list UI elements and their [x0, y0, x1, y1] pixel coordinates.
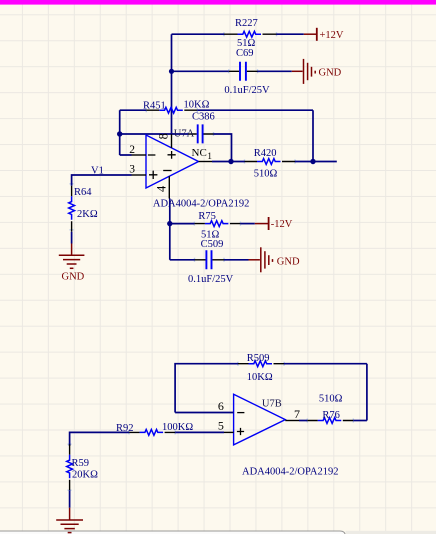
- U7B pin 5 (non-inverting input): [218, 418, 244, 435]
- svg-text:1: 1: [207, 152, 212, 162]
- svg-text:R64: R64: [74, 187, 92, 198]
- resistor R227: [224, 31, 277, 37]
- svg-text:4: 4: [154, 185, 168, 192]
- svg-text:20KΩ: 20KΩ: [72, 470, 98, 481]
- svg-text:+12V: +12V: [320, 30, 344, 41]
- svg-text:R420: R420: [254, 148, 277, 159]
- wire: pin-4 rail to C509: [170, 259, 195, 261]
- U7B pin 7 output: [285, 407, 300, 421]
- svg-text:0.1uF/25V: 0.1uF/25V: [224, 85, 270, 96]
- svg-text:510Ω: 510Ω: [319, 394, 343, 405]
- capacitor C509: [195, 250, 225, 269]
- svg-text:3: 3: [129, 164, 135, 176]
- svg-text:U7A: U7A: [174, 128, 195, 139]
- wire: output of U7A: [212, 161, 245, 163]
- svg-text:GND: GND: [277, 257, 300, 268]
- wire: pin-8 rail to C69: [172, 70, 229, 72]
- resistor R76: [307, 418, 353, 424]
- power port +12V: [304, 28, 344, 41]
- U7A pin 8 (V+): [157, 133, 176, 159]
- svg-text:R451: R451: [143, 101, 166, 112]
- U7A pin 1 output, NC pin name: [192, 147, 213, 162]
- junction node on pin-4 rail at R75 tap: [167, 221, 172, 226]
- svg-text:0.1uF/25V: 0.1uF/25V: [188, 274, 234, 285]
- op-amp U7A triangle: [146, 135, 199, 188]
- wire: feedback net R451 row, from pin-2 node up and across to output node: [120, 110, 313, 161]
- op-amp U7B triangle: [234, 394, 286, 445]
- junction node output / C386: [228, 159, 233, 164]
- svg-text:510Ω: 510Ω: [254, 169, 278, 180]
- wire: R76 to feedback right vertical: [353, 420, 367, 422]
- U7B pin 6 (inverting input): [175, 399, 244, 413]
- power ground GND below R64 (down-facing bars): [59, 244, 85, 283]
- wire: R92 input row to pin 5: [70, 432, 224, 446]
- svg-text:GND: GND: [319, 68, 342, 79]
- wire: R64 to GND: [71, 232, 73, 244]
- wire: C386 left branch: [120, 133, 188, 135]
- U7A pin 4 (V-): [154, 171, 171, 199]
- svg-text:C69: C69: [236, 48, 254, 59]
- power port -12V: [240, 217, 292, 230]
- junction node after R420 / feedback: [310, 159, 315, 164]
- wire: U7B feedback top R509 row: [175, 364, 367, 421]
- svg-text:U7B: U7B: [262, 398, 282, 409]
- power ground GND (right-facing bars) for C509: [249, 247, 300, 272]
- U7A pin 2 (inverting input): [129, 144, 155, 156]
- wire: +12V rail down to U7A pin 8: [172, 34, 304, 134]
- svg-text:5: 5: [218, 418, 224, 432]
- resistor R59: [67, 444, 73, 490]
- resistor R75: [194, 221, 240, 227]
- svg-text:ADA4004-2/OPA2192: ADA4004-2/OPA2192: [153, 199, 249, 210]
- resistor R64: [69, 186, 75, 232]
- wire: R59 to bottom GND: [69, 490, 71, 507]
- wire: C386 right branch down to output node: [214, 134, 232, 162]
- svg-text:R75: R75: [198, 211, 216, 222]
- svg-text:2KΩ: 2KΩ: [77, 209, 98, 220]
- svg-text:-12V: -12V: [271, 219, 293, 230]
- wire: pin-4 rail to R75: [170, 223, 195, 225]
- wire: input V1 net to pin 3: [72, 175, 132, 186]
- junction node at pin-2 / C386 branch: [117, 131, 122, 136]
- power ground GND below R59 (down-facing bars): [56, 508, 83, 533]
- capacitor C69: [229, 62, 258, 81]
- svg-text:ADA4004-2/OPA2192: ADA4004-2/OPA2192: [242, 467, 338, 478]
- svg-text:2: 2: [129, 144, 135, 156]
- svg-text:C509: C509: [201, 239, 224, 250]
- wire: U7B output to R76: [299, 420, 307, 422]
- svg-text:C386: C386: [192, 112, 215, 123]
- power ground GND (right-facing bars) for C69: [292, 59, 342, 84]
- resistor R420: [245, 159, 296, 165]
- svg-text:7: 7: [294, 407, 300, 421]
- resistor R509: [238, 361, 284, 367]
- resistor R92: [129, 430, 175, 436]
- junction node on pin-8 rail at C69 tap: [169, 69, 174, 74]
- wire: C69 to GND: [258, 70, 292, 72]
- svg-text:R92: R92: [116, 423, 134, 434]
- wire: C509 to GND: [224, 259, 249, 261]
- svg-text:NC: NC: [192, 147, 207, 159]
- wire: pin-4 rail down: [169, 199, 171, 260]
- svg-text:R59: R59: [72, 458, 90, 469]
- svg-text:10KΩ: 10KΩ: [247, 372, 273, 383]
- U7A pin 3 (non-inverting input): [129, 164, 157, 179]
- svg-text:GND: GND: [62, 272, 85, 283]
- svg-text:6: 6: [218, 399, 224, 413]
- resistor R451: [146, 107, 197, 113]
- svg-text:R509: R509: [247, 353, 270, 364]
- svg-text:100KΩ: 100KΩ: [162, 422, 193, 433]
- svg-text:10KΩ: 10KΩ: [184, 100, 210, 111]
- capacitor C386: [188, 124, 214, 143]
- svg-text:R227: R227: [235, 18, 258, 29]
- svg-text:V1: V1: [91, 166, 104, 177]
- svg-text:R76: R76: [322, 410, 340, 421]
- svg-text:8: 8: [157, 133, 171, 139]
- wire: R420 to net end: [295, 161, 337, 163]
